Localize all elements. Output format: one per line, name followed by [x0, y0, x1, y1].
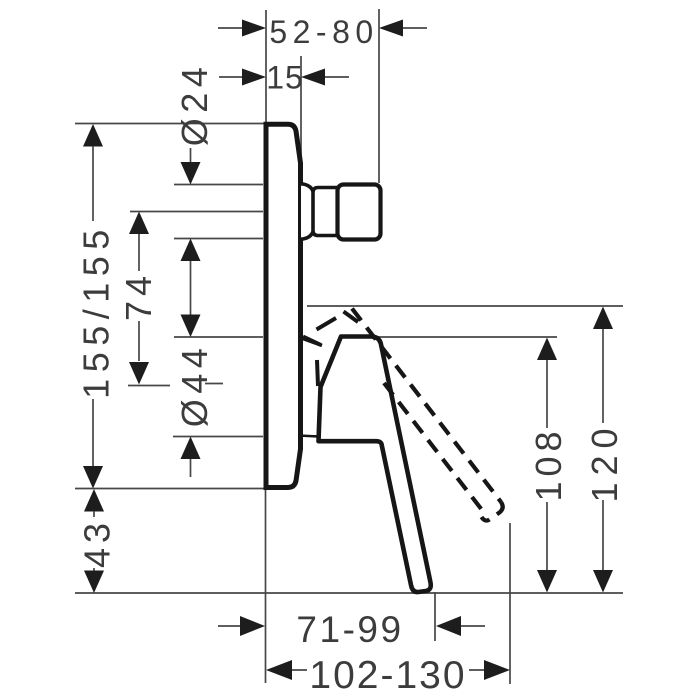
wire extension line y184 (knob top): [174, 184, 263, 186]
svg-text:15: 15: [266, 60, 304, 96]
dimension 71-99: [218, 609, 485, 650]
dimension 155/155: [76, 124, 117, 489]
svg-text:52-80: 52-80: [269, 14, 378, 50]
dimension Ø24: [174, 62, 215, 315]
wire extension line y593 (lever tip level): [75, 592, 623, 594]
dashed sleeve hints (raised position): [303, 312, 358, 387]
wire extension line y337 right (sleeve top to 108): [378, 336, 557, 338]
svg-text:Ø44: Ø44: [174, 343, 215, 428]
svg-text:43: 43: [77, 518, 118, 568]
stem top line: [300, 338, 322, 346]
lever (dashed, raised position): [352, 309, 503, 521]
dimension 15: [219, 60, 349, 96]
wire extension line y385 left piece (lever axis): [128, 385, 170, 387]
cartridge mid cylinder: [313, 188, 339, 236]
svg-text:155/155: 155/155: [76, 223, 117, 399]
wire extension line x379 (knob end): [378, 9, 380, 183]
wire extension line y436 middle (sleeve bottom stub): [300, 435, 317, 437]
wire extension line x265 bottom (wall plane): [265, 489, 267, 683]
svg-text:Ø24: Ø24: [174, 62, 215, 147]
wire extension line x510 (dashed lever tip): [509, 523, 511, 684]
svg-text:102-130: 102-130: [309, 654, 466, 697]
svg-text:71-99: 71-99: [296, 609, 403, 650]
svg-text:108: 108: [528, 426, 569, 501]
dimension Ø44: [174, 315, 215, 478]
wire extension line y123 (plate top): [75, 123, 266, 125]
wire extension line y384 right piece (lever axis): [205, 383, 223, 385]
wire extension line y436 left (sleeve bottom): [173, 436, 263, 438]
wire extension line x435 (solid lever tip): [434, 592, 436, 641]
handle sleeve and lever (solid): [319, 337, 431, 593]
dimension 108: [528, 338, 569, 593]
dimension 74: [118, 212, 159, 385]
wire extension line y337 left (sleeve top): [174, 336, 263, 338]
wire extension line x266 top (wall plane): [265, 10, 267, 124]
dimension 52-80: [218, 14, 427, 50]
stem bottom line: [299, 436, 318, 437]
escutcheon plate (side view): [266, 124, 301, 487]
collar dome on plate: [301, 184, 314, 239]
wire extension line y488 (plate bottom): [75, 488, 266, 490]
svg-text:74: 74: [118, 271, 159, 321]
wire extension line y238 (knob bottom): [174, 238, 263, 240]
wire extension line y306 (raised handle top to 120): [307, 305, 623, 307]
dimension 102-130: [266, 654, 510, 697]
stop ring knob: [338, 185, 381, 240]
svg-text:120: 120: [584, 421, 625, 502]
wire extension line y211 (cartridge axis): [130, 211, 263, 213]
wire extension line x301 (plate front): [300, 56, 302, 181]
dimension 120: [584, 307, 625, 593]
dimension 43: [77, 489, 118, 593]
